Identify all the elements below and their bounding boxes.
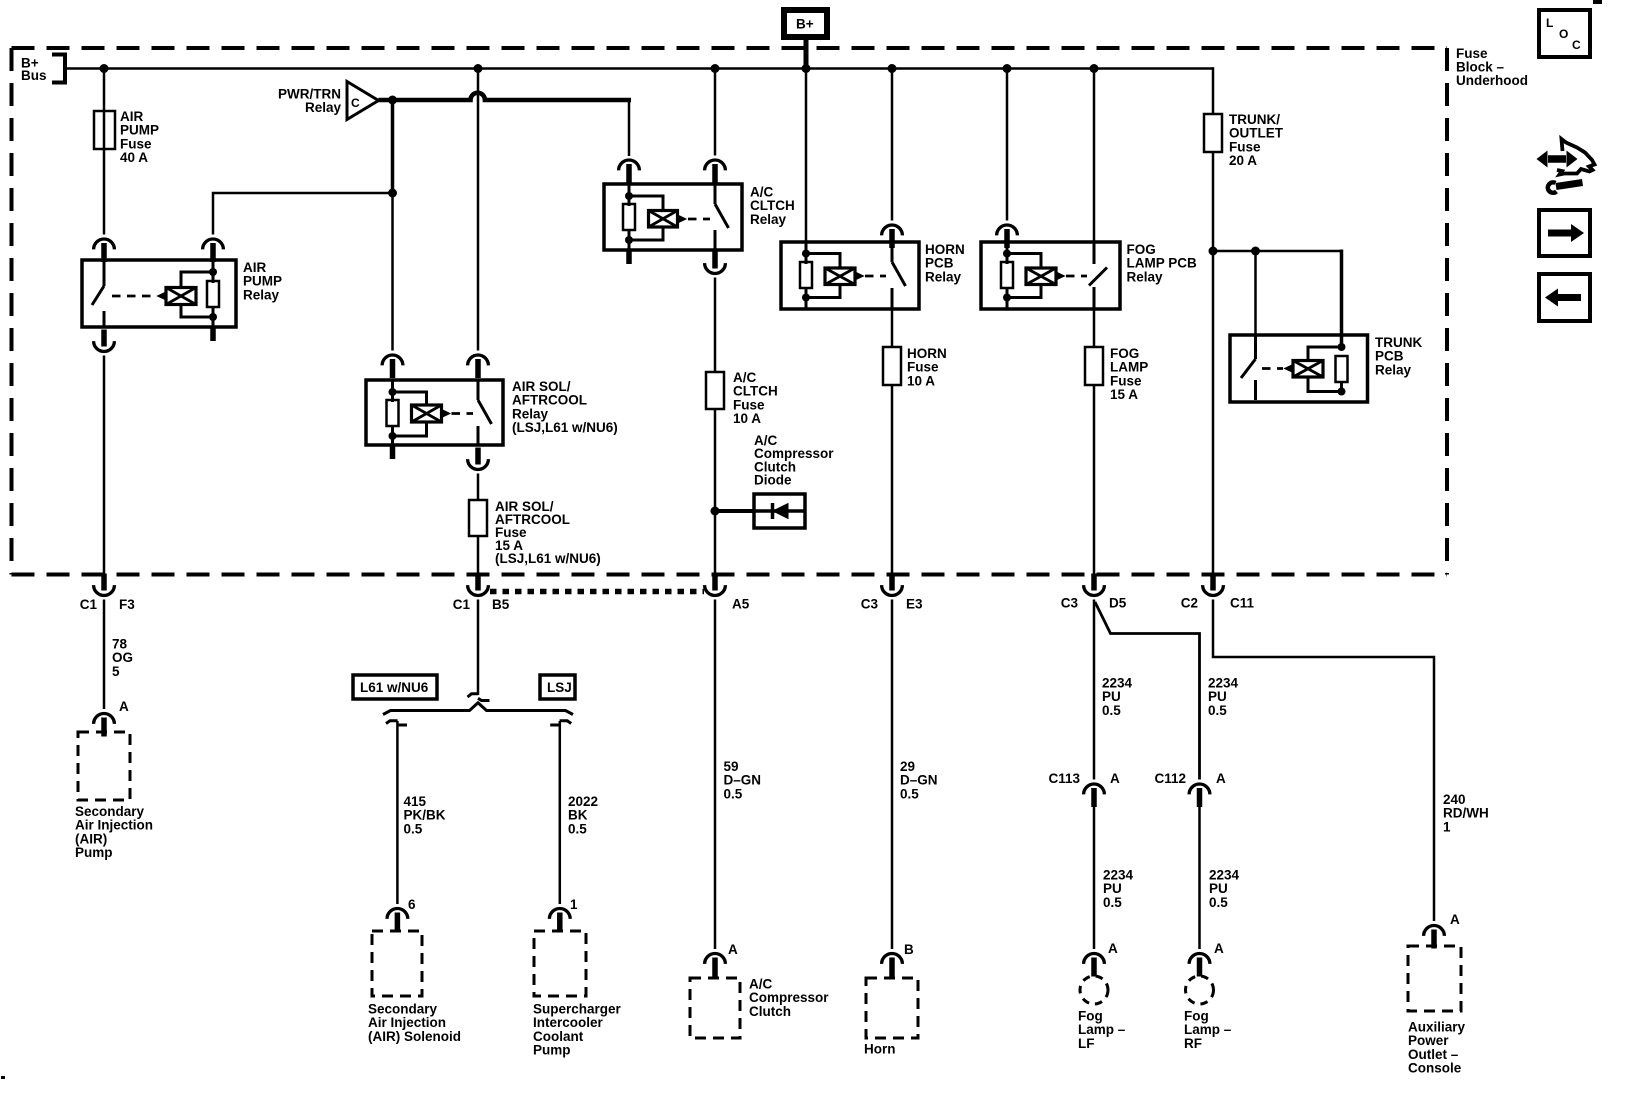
fuse TRUNK/OUTLET 20 A (1204, 112, 1284, 168)
label HORN PCB Relay (925, 242, 965, 284)
svg-text:0.5: 0.5 (568, 821, 587, 836)
relay PWR/TRN output triangle (347, 82, 379, 120)
icon forward arrow box (1539, 210, 1590, 256)
wire bus corner down to TRUNK/OUTLET fuse (1212, 67, 1215, 114)
label wire 2022 BK 0.5 (568, 794, 598, 836)
node junction trunk switch feed (1251, 247, 1260, 256)
wire trunk relay coil feed (1340, 250, 1344, 349)
svg-text:0.5: 0.5 (1209, 895, 1228, 910)
wire AIR SOL switch output to fuse (477, 474, 480, 501)
wire FOG fuse down to C3/D5 (1093, 385, 1096, 575)
connector C113 (1048, 771, 1120, 807)
svg-text:A: A (119, 699, 129, 714)
relay FOG LAMP PCB (981, 242, 1120, 309)
component A/C Compressor Clutch (690, 977, 829, 1039)
label wire 240 RD/WH 1 (1443, 792, 1489, 834)
svg-text:40 A: 40 A (120, 150, 148, 165)
svg-text:RF: RF (1184, 1036, 1202, 1051)
svg-text:(LSJ,L61 w/NU6): (LSJ,L61 w/NU6) (495, 551, 601, 566)
connector pin A at A/C compressor clutch (705, 942, 738, 977)
svg-text:C11: C11 (1230, 596, 1255, 611)
svg-text:A: A (1108, 941, 1118, 956)
svg-text:Relay: Relay (305, 100, 342, 115)
relay AIR PUMP (82, 260, 236, 327)
svg-text:0.5: 0.5 (1102, 703, 1121, 718)
svg-text:Pump: Pump (533, 1043, 571, 1058)
label Fuse Block - Underhood (1456, 46, 1528, 88)
connector pin AIR SOL switch output (468, 448, 489, 470)
fuse FOG LAMP 15 A (1085, 346, 1148, 402)
label wire 2234 PU 0.5 (LF lower) (1103, 868, 1134, 910)
connector pin A at fog lamp LF (1084, 941, 1118, 977)
component Secondary Air Injection (AIR) Solenoid (368, 931, 461, 1044)
node junction bus/fog-coil (1003, 64, 1012, 73)
node LSJ branch start (550, 721, 571, 725)
connector pin A/C CLTCH switch output (705, 252, 726, 274)
connector pin AIR SOL relay switch (468, 355, 489, 378)
wire junction to AIR PUMP relay coil (213, 193, 393, 235)
connector pin AIR PUMP relay pin (switch side) (94, 239, 115, 262)
node junction bus/air-sol-switch (474, 64, 483, 73)
svg-text:A: A (1110, 771, 1120, 786)
svg-text:C: C (351, 96, 360, 110)
svg-text:A: A (1216, 771, 1226, 786)
node junction PWR/TRN output (388, 96, 397, 105)
label wire 29 D-GN 0.5 (900, 759, 938, 801)
connector C1/F3 exit (80, 574, 136, 613)
connector A5 exit (705, 574, 750, 612)
component Supercharger Intercooler Coolant Pump (533, 931, 622, 1058)
label L61 w/NU6 option box (353, 675, 437, 699)
node junction bus/horn-switch (888, 64, 897, 73)
component Fog Lamp LF (1078, 976, 1126, 1051)
svg-text:Relay: Relay (750, 212, 787, 227)
svg-text:A: A (728, 942, 738, 957)
wire A/C CLTCH coil ground stub (626, 250, 632, 264)
icon car/service glyph (1537, 139, 1595, 193)
node junction bus/fog-switch (1090, 64, 1099, 73)
svg-text:10 A: 10 A (907, 373, 935, 388)
connector pin AIR SOL relay coil (382, 355, 403, 378)
wire junction down to AIR SOL relay coil (391, 193, 394, 351)
svg-text:20 A: 20 A (1229, 153, 1257, 168)
label wire 2234 PU 0.5 (RF upper) (1208, 676, 1239, 718)
connector pin A at AIR pump (94, 699, 129, 737)
connector C3/D5 exit (1061, 574, 1127, 611)
label FOG LAMP PCB Relay (1127, 242, 1198, 284)
component Auxiliary Power Outlet Console (1408, 946, 1466, 1076)
label LSJ option box (540, 675, 575, 699)
wire bus down to HORN coil (805, 69, 808, 244)
decorative bottom-left speck (1, 1076, 5, 1079)
wire C113 down to fog lamp LF (1093, 805, 1096, 949)
connector pin A at fog lamp RF (1189, 941, 1224, 977)
svg-text:15 A: 15 A (1110, 387, 1138, 402)
svg-text:Relay: Relay (1127, 269, 1164, 284)
wire LSJ branch down (559, 721, 562, 904)
decorative corner speck (1593, 0, 1602, 4)
svg-text:C2: C2 (1181, 596, 1198, 611)
fuse A/C CLTCH 10 A (706, 370, 778, 426)
connector pin B at horn (882, 942, 914, 977)
svg-text:C1: C1 (80, 597, 98, 612)
node junction bus/B+ feed (802, 64, 811, 73)
wire B+ feed stub (804, 40, 809, 69)
wire TRUNK fuse down to C2/C11 (1212, 152, 1215, 575)
wire bus down to A/C CLTCH switch (714, 69, 717, 156)
label wire 415 PK/BK 0.5 (404, 794, 446, 836)
svg-text:0.5: 0.5 (1208, 703, 1227, 718)
wire bus down to AIR SOL relay switch (477, 69, 480, 351)
wire HORN fuse down to C3/E3 (891, 385, 894, 575)
label TRUNK PCB Relay (1375, 335, 1422, 377)
node junction at y193 (388, 189, 397, 198)
icon LOC box (1539, 10, 1590, 57)
node junction bus/air-pump-fuse (100, 64, 109, 73)
connector pin HORN relay switch (882, 225, 903, 248)
svg-text:Horn: Horn (864, 1042, 896, 1057)
wire PWR/TRN corner down to A/C CLTCH coil (628, 98, 631, 156)
component Horn (864, 978, 918, 1057)
svg-text:0.5: 0.5 (900, 786, 919, 801)
label wire 2234 PU 0.5 (RF lower) (1209, 868, 1240, 910)
wire A5 down to A/C compressor clutch (714, 600, 717, 950)
svg-text:F3: F3 (119, 597, 135, 612)
label wire 2234 PU 0.5 (LF upper) (1102, 676, 1133, 718)
connector pin A/C CLTCH relay coil (619, 160, 640, 183)
svg-text:B: B (904, 942, 914, 957)
wire FOG switch output to fuse (1093, 309, 1096, 347)
node L61 branch start (386, 721, 407, 725)
svg-text:(LSJ,L61 w/NU6): (LSJ,L61 w/NU6) (512, 420, 618, 435)
svg-text:Relay: Relay (1375, 362, 1412, 377)
svg-text:C112: C112 (1154, 771, 1186, 786)
svg-text:O: O (1559, 27, 1568, 41)
wire trunk tap horizontal (1213, 250, 1342, 253)
fuse HORN 10 A (883, 346, 947, 388)
svg-text:Relay: Relay (243, 287, 280, 302)
wire E3 down to horn (891, 600, 894, 950)
wire C11 jog to aux outlet (1213, 600, 1434, 922)
wire L61 branch down (396, 721, 399, 904)
connector C2/C11 exit (1181, 574, 1255, 611)
svg-text:1: 1 (1443, 819, 1451, 834)
component Fog Lamp RF (1184, 976, 1232, 1051)
wire bus down to FOG switch (1093, 69, 1096, 244)
connector pin FOG relay coil (997, 225, 1018, 248)
wire A/C CLTCH switch output to fuse (714, 278, 717, 373)
connector pin A at aux outlet (1424, 912, 1460, 949)
connector C1/B5 exit (453, 574, 510, 613)
svg-text:1: 1 (570, 897, 578, 912)
wire bus down to FOG coil (1006, 69, 1009, 221)
wire D5 branch to RF (1095, 602, 1200, 780)
wire AIR SOL coil ground stub (390, 445, 396, 459)
svg-text:C3: C3 (861, 597, 879, 612)
svg-text:LSJ: LSJ (547, 680, 572, 695)
svg-text:C113: C113 (1048, 771, 1080, 786)
svg-text:Underhood: Underhood (1456, 73, 1528, 88)
wire D5 down to C113 (1093, 600, 1096, 780)
wire AIR PUMP switch output down to C1/F3 (103, 356, 106, 576)
wire B+ bus (65, 67, 1213, 70)
wire bus down to HORN switch (891, 69, 894, 221)
label PWR/TRN Relay (278, 87, 341, 116)
wire AIR PUMP relay coil ground stub (210, 327, 216, 341)
connector pin AIR PUMP relay pin (coil side) (203, 239, 224, 262)
svg-text:0.5: 0.5 (1103, 895, 1122, 910)
svg-text:E3: E3 (906, 597, 923, 612)
svg-text:Diode: Diode (754, 473, 792, 488)
component Secondary Air Injection (AIR) Pump (75, 732, 153, 860)
wire PWR/TRN junction down (391, 100, 395, 193)
svg-text:A: A (1450, 912, 1460, 927)
svg-text:Pump: Pump (75, 845, 113, 860)
relay AIR SOL/AFTRCOOL (366, 380, 503, 445)
fuse AIR SOL/AFTRCOOL 15 A (469, 499, 601, 566)
node B+ Bus bracket (21, 55, 65, 84)
label wire 59 D-GN 0.5 (724, 759, 762, 801)
wire A/C CLTCH fuse down to A5 (714, 409, 717, 575)
relay TRUNK PCB (1230, 335, 1368, 402)
wire HORN switch output to fuse (891, 309, 894, 347)
svg-text:Console: Console (1408, 1061, 1462, 1076)
node junction diode tap (711, 507, 720, 516)
svg-text:A5: A5 (732, 597, 750, 612)
label AIR SOL/AFTRCOOL Relay (512, 379, 618, 435)
svg-text:A: A (1214, 941, 1224, 956)
wire bus to AIR PUMP fuse (103, 69, 106, 235)
wire PWR/TRN relay output (thick, hops over vertical) (379, 93, 632, 100)
connector C112 (1154, 771, 1226, 807)
svg-text:D5: D5 (1109, 596, 1127, 611)
svg-text:C3: C3 (1061, 596, 1079, 611)
svg-text:Clutch: Clutch (749, 1004, 791, 1019)
wire C112 down to fog lamp RF (1198, 805, 1201, 949)
label AIR PUMP Relay (243, 260, 282, 302)
wire dotted link B5 to A5 (490, 589, 704, 595)
connector C3/E3 exit (861, 574, 923, 612)
connector pin 6 at AIR solenoid (387, 897, 416, 932)
svg-text:Bus: Bus (21, 68, 47, 83)
fuse block underhood dashed border (12, 48, 1448, 575)
svg-text:B+: B+ (796, 17, 814, 32)
B+ power feed box (784, 10, 827, 37)
label A/C Compressor Clutch Diode (754, 433, 834, 488)
wire trunk relay switch feed (1254, 251, 1257, 336)
svg-text:10 A: 10 A (733, 411, 761, 426)
node option split brace (383, 703, 573, 715)
node option split terminal (468, 694, 490, 701)
svg-text:LF: LF (1078, 1036, 1095, 1051)
connector pin AIR PUMP relay switch output (94, 330, 115, 352)
svg-text:B5: B5 (492, 597, 510, 612)
svg-text:L61 w/NU6: L61 w/NU6 (360, 680, 429, 695)
svg-text:C: C (1572, 38, 1581, 52)
svg-text:Relay: Relay (925, 269, 962, 284)
svg-text:0.5: 0.5 (404, 821, 423, 836)
svg-text:C1: C1 (453, 597, 471, 612)
label wire 78 OG 5 (112, 637, 133, 679)
svg-text:6: 6 (408, 897, 416, 912)
wire C1/F3 down to AIR pump (103, 600, 106, 710)
relay A/C CLTCH (604, 184, 742, 250)
svg-text:(AIR) Solenoid: (AIR) Solenoid (368, 1029, 461, 1044)
wire AIR SOL fuse down to C1/B5 (477, 536, 480, 575)
label A/C CLTCH Relay (750, 185, 795, 227)
icon back arrow box (1539, 274, 1590, 321)
svg-text:0.5: 0.5 (724, 786, 743, 801)
connector pin 1 at coolant pump (549, 897, 578, 932)
relay HORN PCB (781, 242, 919, 309)
connector pin A/C CLTCH relay switch (705, 160, 726, 183)
svg-text:L: L (1546, 16, 1553, 30)
node junction bus/ac-cltch-switch (711, 64, 720, 73)
node junction trunk tap (1209, 247, 1218, 256)
fuse AIR PUMP 40 A (94, 109, 159, 165)
diode A/C compressor clutch diode (754, 494, 805, 528)
wire B5 down to option split (477, 600, 480, 696)
svg-text:5: 5 (112, 664, 120, 679)
wire diode lead (715, 509, 754, 513)
